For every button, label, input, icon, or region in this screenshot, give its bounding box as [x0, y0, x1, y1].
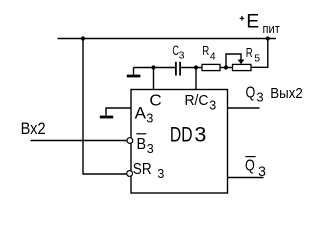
- op-amp / one-shot IC DD3 body: [131, 90, 228, 194]
- inversion circle at B3 input: [127, 138, 133, 144]
- wire: R5 wiper tie to left terminal: [226, 54, 244, 68]
- svg-text:B: B: [137, 136, 147, 153]
- pin label R/C3: [185, 92, 217, 113]
- ground symbol at A3 input: [100, 108, 131, 118]
- svg-text:Q: Q: [245, 158, 255, 175]
- svg-text:3: 3: [146, 111, 153, 125]
- svg-text:E: E: [246, 11, 259, 33]
- svg-text:C: C: [149, 92, 161, 109]
- pin label SR3: [133, 161, 165, 181]
- pin label B3 (inverted): [136, 134, 153, 156]
- svg-text:DD: DD: [170, 123, 193, 147]
- label Q3 Вых2: [246, 85, 303, 105]
- svg-text:пит: пит: [263, 22, 281, 36]
- label Q3-bar: [245, 157, 266, 179]
- inversion circle at SR3 input: [127, 171, 133, 177]
- svg-text:3: 3: [179, 50, 185, 62]
- svg-text:3: 3: [256, 89, 263, 104]
- resistor R4: [202, 64, 220, 70]
- svg-text:R: R: [246, 46, 253, 60]
- wire: output Q3-bar: [228, 177, 264, 179]
- wire: +E supply top rail: [58, 38, 277, 40]
- wire: Вх2 input to B3 pin: [31, 140, 127, 142]
- svg-text:A: A: [135, 105, 146, 123]
- svg-text:3: 3: [209, 98, 216, 112]
- wire: pin C drop to DD3: [153, 68, 155, 90]
- wire: ground to C pin node: [134, 67, 176, 69]
- pin label A3: [135, 105, 154, 126]
- wire: pin R/C3 drop to DD3: [195, 68, 197, 90]
- wire: left rail down from top rail to SR3 row: [83, 39, 127, 175]
- node: R/C3 pin junction: [194, 65, 198, 69]
- svg-text:3: 3: [157, 167, 164, 181]
- label R4: [202, 44, 216, 63]
- svg-text:Вых2: Вых2: [270, 85, 303, 102]
- wire: R5 right terminal up to top rail: [251, 39, 268, 68]
- svg-text:5: 5: [254, 53, 260, 65]
- svg-text:SR: SR: [133, 161, 152, 178]
- node: R4-R5 junction with wiper: [224, 65, 228, 69]
- node: junction of left rail with top rail: [81, 36, 85, 40]
- svg-text:R: R: [202, 44, 209, 58]
- svg-text:Q: Q: [246, 85, 256, 102]
- label DD3: [170, 123, 207, 147]
- resistor R5 (variable): [233, 64, 252, 70]
- net label +Eпит: [240, 11, 280, 37]
- svg-text:R/C: R/C: [185, 92, 209, 109]
- wire: R4 to R5: [220, 67, 233, 69]
- svg-text:Вх2: Вх2: [21, 119, 46, 138]
- svg-text:3: 3: [258, 163, 266, 179]
- wire: C3 right plate to R/C3 node: [181, 67, 202, 69]
- svg-text:3: 3: [194, 123, 206, 147]
- label C3: [172, 43, 184, 62]
- svg-text:3: 3: [147, 142, 154, 156]
- capacitor C3: [176, 62, 180, 76]
- wire: output Q3: [228, 107, 260, 109]
- label R5: [246, 46, 260, 65]
- node: C pin junction: [151, 65, 155, 69]
- ground symbol at C3 left plate: [127, 68, 141, 78]
- svg-text:4: 4: [210, 51, 216, 63]
- node: junction of R5 branch with top rail: [266, 36, 270, 40]
